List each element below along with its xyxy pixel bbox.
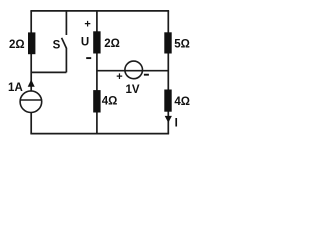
current arrow I: [165, 116, 172, 123]
arrow of current source: [28, 80, 35, 87]
wire right edge: [167, 11, 169, 134]
svg-text:5Ω: 5Ω: [174, 38, 190, 50]
wire bottom: [30, 133, 169, 135]
wire switch branch upper: [65, 11, 67, 35]
label minus of 1V: [144, 74, 149, 76]
resistor R2 2ohm middle (U): [93, 31, 100, 53]
resistor R4 4ohm middle: [93, 90, 100, 112]
svg-text:4Ω: 4Ω: [174, 96, 190, 108]
wire switch branch lower: [65, 48, 67, 72]
chord of current source: [20, 99, 41, 101]
svg-text:4Ω: 4Ω: [102, 96, 118, 108]
resistor R1 2ohm left: [28, 32, 35, 54]
wire left edge: [30, 11, 32, 134]
switch S blade: [62, 38, 67, 49]
resistor R5 4ohm right: [164, 90, 171, 112]
svg-text:1A: 1A: [8, 82, 23, 94]
wire switch horizontal: [31, 71, 66, 73]
current source I1 1A: [20, 91, 42, 113]
svg-text:S: S: [53, 40, 61, 52]
label minus below U: [86, 57, 91, 59]
svg-text:+: +: [116, 71, 122, 83]
svg-text:1V: 1V: [125, 84, 139, 96]
resistor R3 5ohm: [164, 32, 171, 53]
svg-text:U: U: [81, 36, 89, 48]
svg-text:2Ω: 2Ω: [9, 39, 25, 51]
wire middle branch: [96, 11, 98, 134]
wire through source: [125, 70, 143, 72]
wire 1V horizontal: [97, 70, 168, 72]
wire top: [30, 10, 169, 12]
svg-text:I: I: [175, 118, 178, 130]
svg-text:+: +: [84, 18, 90, 30]
voltage source V1 1V: [125, 61, 143, 79]
svg-text:2Ω: 2Ω: [104, 38, 120, 50]
